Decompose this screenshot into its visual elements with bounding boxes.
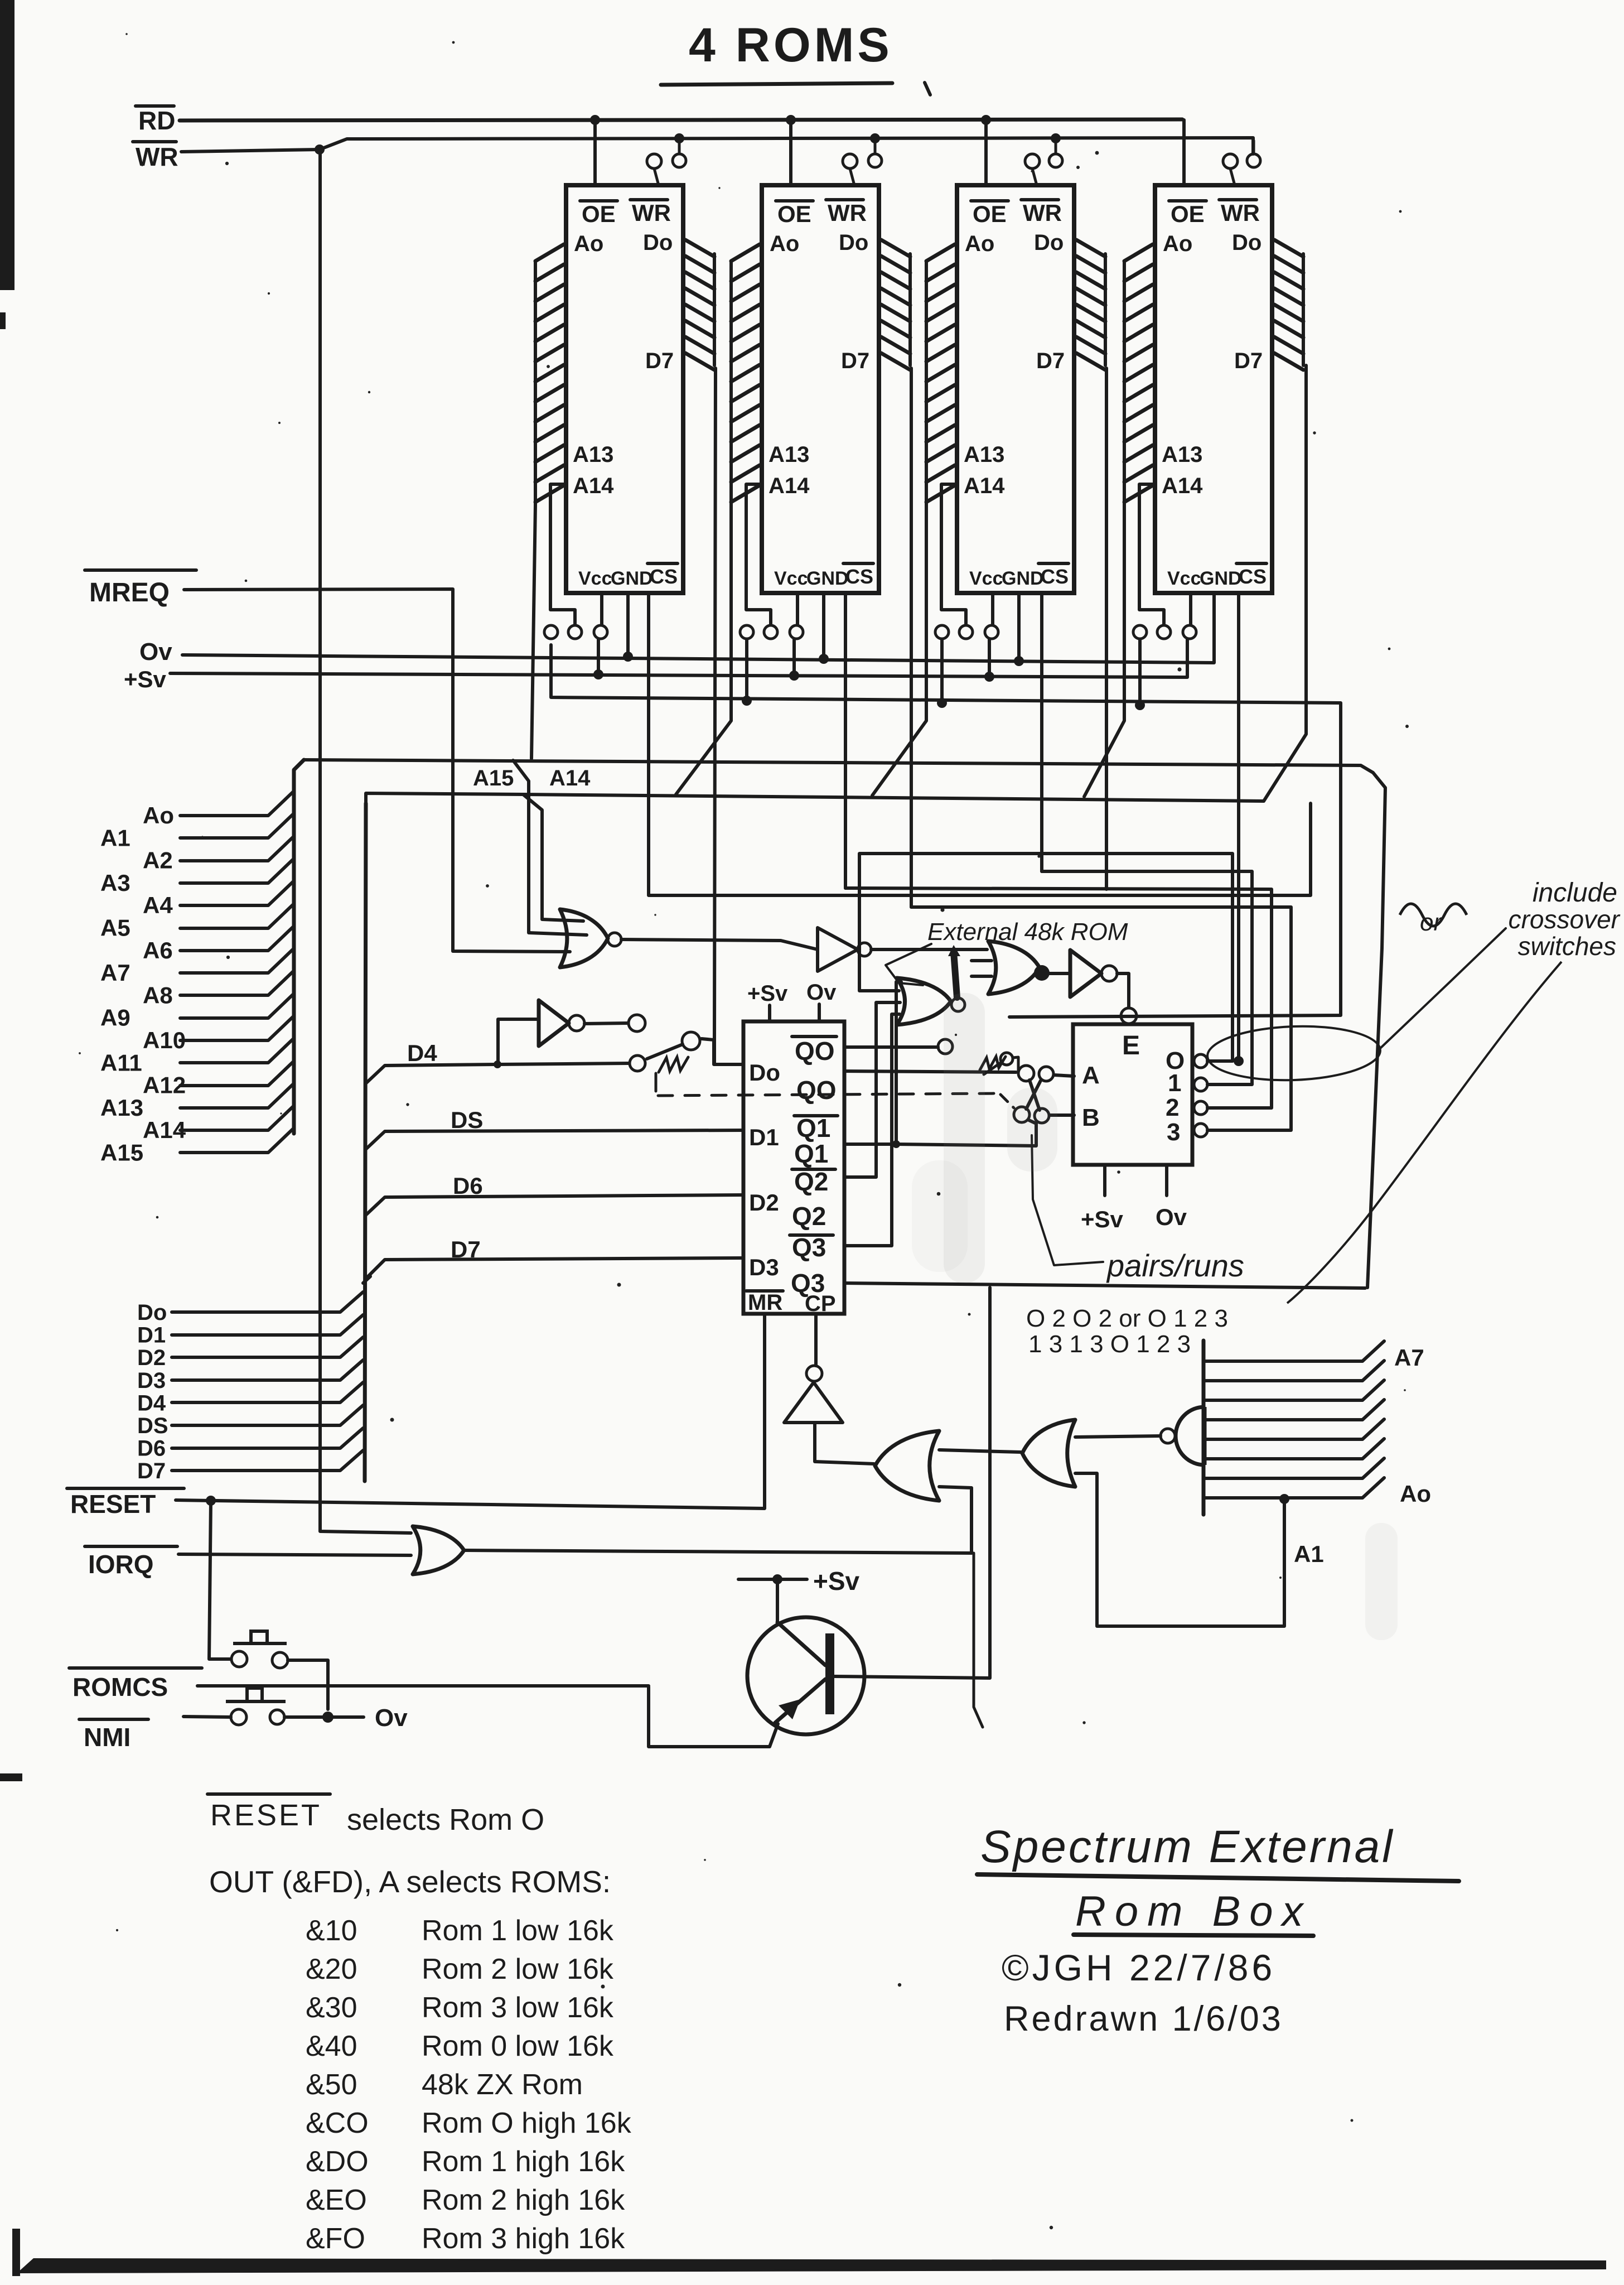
U3 WR overline xyxy=(1021,198,1058,201)
U2 WR link circle lower xyxy=(843,154,857,168)
svg-text:4 ROMS: 4 ROMS xyxy=(689,18,893,72)
U2 link circle aux xyxy=(740,625,753,639)
junction G5 output blob xyxy=(1034,965,1050,981)
wire crossover to B xyxy=(1050,1113,1074,1117)
junction RD to U1 OE xyxy=(590,115,600,125)
svg-text:crossover: crossover xyxy=(1509,905,1621,934)
svg-text:Rom 1 low 16k: Rom 1 low 16k xyxy=(422,1915,614,1947)
pencil smudge center xyxy=(944,993,985,1283)
NAND gate G11 body xyxy=(1176,1407,1205,1465)
svg-text:A6: A6 xyxy=(143,937,173,963)
wire bus drop U2 left xyxy=(676,505,731,794)
svg-text:©JGH 22/7/86: ©JGH 22/7/86 xyxy=(1002,1947,1275,1988)
overline NMI xyxy=(79,1718,148,1721)
probe link circle Q0bar xyxy=(938,1039,953,1054)
U6 output 0 bubble xyxy=(1194,1054,1207,1068)
junction U4 CS select0 xyxy=(1234,1056,1244,1066)
svg-text:Vcc: Vcc xyxy=(578,568,612,589)
svg-text:3: 3 xyxy=(1167,1119,1180,1146)
wire bus D1 xyxy=(172,1315,363,1335)
svg-text:NMI: NMI xyxy=(84,1723,130,1752)
junction U1 Vcc on +5v rail xyxy=(593,669,603,679)
svg-text:&20: &20 xyxy=(306,1953,357,1985)
wire A bus spine right xyxy=(1202,1341,1206,1515)
svg-text:D2: D2 xyxy=(749,1189,779,1216)
U3 OE overline xyxy=(971,199,1008,203)
note RESET overline xyxy=(207,1792,330,1796)
callout curve to include text xyxy=(1380,928,1506,1049)
U2 address bus hatching xyxy=(731,244,760,502)
U4 link circle A14 xyxy=(1157,625,1171,639)
overline ROMCS xyxy=(69,1666,202,1670)
svg-text:MR: MR xyxy=(748,1290,782,1315)
dashed option wire to B xyxy=(1000,1095,1014,1108)
junction switches 0v xyxy=(322,1712,333,1723)
U1 address bus envelope xyxy=(534,262,537,505)
wire bus D3 xyxy=(172,1360,363,1380)
svg-text:D7: D7 xyxy=(645,349,674,373)
latch chip U5 body xyxy=(743,1021,844,1314)
U3 CS overline xyxy=(1038,562,1069,565)
transistor Q1 emitter diagonal xyxy=(775,1679,825,1723)
svg-text:DS: DS xyxy=(451,1107,483,1133)
wire +5v stub xyxy=(738,1578,807,1581)
wire base vertical xyxy=(776,1579,779,1624)
wire A11 xyxy=(180,1038,294,1063)
U6 output 2 bubble xyxy=(1194,1101,1207,1115)
svg-text:Ao: Ao xyxy=(770,232,799,256)
svg-text:Do: Do xyxy=(137,1300,167,1325)
wire 0v rail xyxy=(182,593,1214,663)
switch S1 wiper arm xyxy=(647,1044,683,1059)
svg-text:Ao: Ao xyxy=(143,802,174,828)
svg-text:Ov: Ov xyxy=(375,1704,408,1732)
wire select1 net xyxy=(1042,871,1252,1084)
svg-text:Do: Do xyxy=(839,230,868,255)
crossover contact UL xyxy=(1018,1066,1034,1081)
svg-text:selects Rom O: selects Rom O xyxy=(347,1803,544,1836)
svg-text:E: E xyxy=(1122,1031,1140,1060)
annotation big swoop xyxy=(1287,962,1562,1303)
switch S2 contact xyxy=(1000,1053,1013,1065)
crossover contact LL xyxy=(1014,1107,1029,1122)
svg-text:&CO: &CO xyxy=(306,2107,369,2139)
wire bus drop U4 left xyxy=(1084,505,1124,797)
svg-text:GND: GND xyxy=(1200,568,1242,589)
wire U3 WR link upper stub xyxy=(1055,141,1057,154)
svg-text:&30: &30 xyxy=(306,1992,357,2024)
U4 data bus hatching xyxy=(1274,240,1303,370)
svg-text:OE: OE xyxy=(777,201,811,227)
wire A9 xyxy=(180,994,294,1018)
annotation ellipse xyxy=(1206,1024,1381,1083)
wire G3 output to probe xyxy=(584,1023,628,1024)
junction U2 Vcc on +5v rail xyxy=(789,671,799,681)
wire U1 A14 loop xyxy=(550,484,575,625)
svg-text:D7: D7 xyxy=(137,1459,166,1483)
inverter G3 external ROM probe xyxy=(539,1000,569,1046)
wire A1 xyxy=(180,813,294,838)
U5 MR overline xyxy=(746,1289,783,1293)
svg-text:D3: D3 xyxy=(749,1254,779,1280)
svg-text:D3: D3 xyxy=(137,1368,166,1393)
U1 address bus hatching xyxy=(535,244,564,502)
svg-text:Do: Do xyxy=(749,1059,780,1086)
switch S1 contact left xyxy=(630,1055,645,1071)
U5 Q0bar overline xyxy=(792,1035,837,1038)
inverter G9 body xyxy=(784,1382,843,1423)
title underline 1 xyxy=(977,1874,1459,1881)
scan artifact bottom border xyxy=(17,2258,1606,2273)
svg-text:QO: QO xyxy=(795,1037,835,1066)
SW2 contact right xyxy=(270,1710,284,1724)
wire U1 Vcc pin stub xyxy=(600,593,603,624)
junction WR xyxy=(315,144,325,155)
wire U2 aux link to select rail xyxy=(745,639,748,700)
wire U4 Vcc pin stub xyxy=(1189,593,1192,624)
inverter G9 bubble xyxy=(806,1366,822,1381)
wire U2 GND pin to 0v xyxy=(822,593,825,658)
svg-text:OUT (&FD), A selects ROMS:: OUT (&FD), A selects ROMS: xyxy=(209,1864,611,1899)
wire U2 Vcc pin stub xyxy=(796,593,799,624)
svg-text:A7: A7 xyxy=(1394,1344,1424,1371)
wire bus drop U3 right xyxy=(1105,368,1108,889)
svg-text:A9: A9 xyxy=(100,1005,130,1031)
svg-text:Ov: Ov xyxy=(806,980,837,1005)
wire A13 xyxy=(180,1083,294,1108)
svg-text:OE: OE xyxy=(582,201,616,227)
title underline 2 xyxy=(1074,1935,1313,1936)
wire U3 GND pin to 0v xyxy=(1017,593,1021,660)
transistor Q1 bar xyxy=(825,1633,834,1714)
G11 output bubble xyxy=(1161,1429,1175,1443)
svg-text:A15: A15 xyxy=(100,1140,143,1166)
wire A5 xyxy=(180,904,294,928)
junction RD to U2 OE xyxy=(786,115,796,125)
svg-text:GND: GND xyxy=(1002,568,1044,589)
wire G10 in lower to A1 net xyxy=(1075,1473,1284,1626)
svg-text:Ao: Ao xyxy=(965,232,994,256)
svg-text:A14: A14 xyxy=(1162,474,1203,498)
U2 data bus envelope xyxy=(908,254,912,365)
U1 data bus hatching xyxy=(685,240,714,370)
wire bus D6 xyxy=(172,1428,363,1448)
wire A15 branch to NOR xyxy=(513,760,587,935)
SW2 contact left xyxy=(231,1709,246,1725)
wire U4 A14 loop xyxy=(1139,484,1164,625)
svg-text:Q1: Q1 xyxy=(794,1139,828,1168)
junction A0 tap xyxy=(1279,1494,1289,1504)
transistor Q1 body circle xyxy=(747,1617,864,1734)
junction U4 aux on select rail xyxy=(1135,700,1145,710)
wire G11 output xyxy=(1075,1436,1161,1437)
svg-text:Spectrum External: Spectrum External xyxy=(980,1821,1395,1872)
wire A6 xyxy=(180,926,294,951)
svg-text:D7: D7 xyxy=(1036,349,1065,373)
svg-text:A13: A13 xyxy=(1162,442,1202,467)
svg-text:Rom 2 low 16k: Rom 2 low 16k xyxy=(422,1953,614,1985)
dashed option wire xyxy=(655,1073,658,1091)
junction D4 inverter branch xyxy=(494,1060,501,1068)
svg-text:RD: RD xyxy=(138,106,175,135)
wire U1 Vcc link to +5v xyxy=(597,639,600,673)
wire D6 xyxy=(366,1195,742,1215)
wire D7 xyxy=(366,1258,742,1279)
wire select0 net xyxy=(859,854,1232,1061)
svg-text:A7: A7 xyxy=(100,960,130,986)
switch S2 wiper squiggle xyxy=(980,1057,1006,1070)
U1 WR link circle upper xyxy=(673,154,686,167)
wire G6 output to E xyxy=(1117,973,1129,1007)
wire G7 output xyxy=(464,1550,971,1553)
wire latch 0v pin xyxy=(818,1004,821,1021)
wire right bus A4 xyxy=(1203,1400,1384,1420)
wire U2 WR link upper stub xyxy=(874,141,877,154)
ROM chip U3 body xyxy=(957,185,1074,593)
U3 data bus hatching xyxy=(1076,240,1105,370)
svg-text:D6: D6 xyxy=(137,1436,166,1461)
svg-text:Vcc: Vcc xyxy=(1167,568,1201,589)
wire crossover to A xyxy=(1054,1075,1074,1076)
svg-text:&EO: &EO xyxy=(306,2184,367,2216)
svg-text:A14: A14 xyxy=(549,766,591,790)
svg-text:D1: D1 xyxy=(137,1323,166,1348)
overline RD xyxy=(136,104,174,108)
U4 WR link circle upper xyxy=(1247,154,1260,167)
svg-text:Do: Do xyxy=(1034,230,1064,255)
wire G5 input stubs xyxy=(971,959,992,962)
junction RD to U3 OE xyxy=(981,115,991,125)
wire RESET to switch xyxy=(209,1501,231,1659)
wire +5v rail xyxy=(170,639,1187,677)
wire G8 in upper xyxy=(939,1450,1021,1452)
svg-text:Rom 3 high 16k: Rom 3 high 16k xyxy=(422,2223,625,2255)
U4 address bus envelope xyxy=(1123,262,1126,505)
wire SW1 right to 0v xyxy=(288,1660,328,1709)
SW1 contact left xyxy=(231,1651,247,1667)
NOR gate G1 xyxy=(560,909,608,967)
U2 data bus hatching xyxy=(881,240,910,370)
U2 WR link circle upper xyxy=(868,154,882,167)
wire A4 xyxy=(180,881,294,905)
wire bus D4 xyxy=(172,1382,363,1402)
svg-text:1 3 1 3 O 1 2 3: 1 3 1 3 O 1 2 3 xyxy=(1028,1330,1191,1358)
annotation squiggle or xyxy=(1400,904,1467,926)
svg-text:Rom 1 high 16k: Rom 1 high 16k xyxy=(422,2146,625,2178)
paper speckle noise xyxy=(547,365,550,368)
svg-text:D4: D4 xyxy=(407,1040,437,1066)
svg-text:Ov: Ov xyxy=(1156,1204,1187,1230)
wire right bus A3 xyxy=(1203,1419,1384,1439)
U5 Q1bar overline xyxy=(794,1114,838,1117)
svg-text:CS: CS xyxy=(845,565,873,588)
wire Q3 out xyxy=(844,1283,1365,1288)
decoder chip U6 body xyxy=(1073,1024,1192,1165)
svg-text:OE: OE xyxy=(1171,201,1205,227)
wire Q1 feedback xyxy=(844,982,901,1144)
svg-text:+Sv: +Sv xyxy=(747,981,788,1006)
U1 CS overline xyxy=(647,562,678,565)
wire D4 branch to probe inverter xyxy=(498,1019,539,1064)
U3 data bus envelope xyxy=(1104,254,1107,365)
U3 WR link circle lower xyxy=(1025,154,1040,168)
decoder E input bubble xyxy=(1121,1008,1137,1024)
wire data bus join cap xyxy=(363,1276,370,1283)
wire Q1 to crossover B xyxy=(896,1120,1036,1146)
svg-text:D6: D6 xyxy=(453,1173,483,1199)
svg-text:pairs/runs: pairs/runs xyxy=(1106,1248,1244,1283)
svg-text:A13: A13 xyxy=(573,442,613,467)
wire bus Do xyxy=(172,1292,363,1312)
svg-text:+Sv: +Sv xyxy=(813,1566,860,1595)
wire G7 output up to G8 xyxy=(939,1487,971,1553)
title tick mark xyxy=(925,83,930,95)
scan artifact left edge bar xyxy=(0,0,14,290)
junction WR to U1 xyxy=(674,133,684,143)
svg-text:A14: A14 xyxy=(768,474,810,498)
overline RESET xyxy=(67,1487,184,1490)
svg-text:RESET: RESET xyxy=(210,1799,322,1832)
U2 CS overline xyxy=(843,562,873,565)
wire latch +5v pin xyxy=(768,1005,771,1021)
junction U1 GND on 0v rail xyxy=(623,652,633,662)
svg-text:Ov: Ov xyxy=(139,638,172,666)
wire Q2bar feedback xyxy=(844,1002,900,1177)
wire U1 envelope drop xyxy=(531,505,535,759)
wire SW2 right xyxy=(284,1715,364,1719)
OR gate G7 xyxy=(413,1526,464,1574)
U1 data bus envelope xyxy=(713,254,716,365)
title underline xyxy=(661,83,892,85)
svg-text:48k ZX Rom: 48k ZX Rom xyxy=(422,2069,583,2101)
wire right bus A0 xyxy=(1203,1478,1384,1498)
svg-text:&DO: &DO xyxy=(306,2146,369,2178)
svg-text:Vcc: Vcc xyxy=(969,568,1003,589)
wire U4 OE pin riser xyxy=(1182,120,1186,185)
crossover X wires xyxy=(1026,1080,1041,1110)
wire A3 xyxy=(180,859,294,883)
wire U2 Vcc link to +5v xyxy=(792,639,796,674)
wire A15 xyxy=(180,1128,294,1153)
svg-text:A14: A14 xyxy=(964,474,1005,498)
wire bus DS xyxy=(172,1405,363,1425)
junction Q1 wire xyxy=(892,1140,900,1148)
svg-text:A14: A14 xyxy=(573,474,614,498)
svg-text:OE: OE xyxy=(973,201,1007,227)
U4 link circle aux xyxy=(1133,625,1147,639)
probe link circle external ROM xyxy=(629,1015,645,1031)
svg-text:WR: WR xyxy=(136,142,178,171)
wire U3 CS vertical xyxy=(1040,593,1043,871)
wire A15 net xyxy=(304,760,1385,1288)
svg-text:Q2: Q2 xyxy=(792,1202,826,1231)
svg-text:CS: CS xyxy=(1041,565,1069,588)
wire right bus A7 xyxy=(1203,1341,1384,1361)
wire WR vertical down to IORQ gate xyxy=(320,150,411,1533)
switch SW1 button xyxy=(233,1631,287,1643)
svg-text:Rom 0 low 16k: Rom 0 low 16k xyxy=(422,2030,614,2062)
svg-text:D1: D1 xyxy=(749,1124,779,1150)
wire G5 input stub 2 xyxy=(971,975,992,978)
wire U1 CS net xyxy=(649,593,1311,895)
svg-text:Q3: Q3 xyxy=(792,1233,826,1262)
U4 WR overline xyxy=(1219,198,1256,201)
callout pairs xyxy=(1032,1135,1103,1265)
switch S2 hook xyxy=(1013,1057,1018,1071)
svg-text:WR: WR xyxy=(828,200,867,226)
svg-text:Rom O high 16k: Rom O high 16k xyxy=(422,2107,632,2139)
OR gate G8 (faces left) xyxy=(875,1431,939,1501)
junction U3 Vcc on +5v rail xyxy=(984,672,994,682)
U2 OE overline xyxy=(776,199,813,203)
U2 link circle Vcc xyxy=(790,625,803,639)
inverter G6 xyxy=(1070,950,1101,997)
wire NMI to SW2 xyxy=(183,1717,231,1717)
pencil smudge below latch xyxy=(912,1160,968,1272)
svg-text:D4: D4 xyxy=(137,1391,166,1415)
wire A8 xyxy=(180,971,294,995)
svg-text:CP: CP xyxy=(805,1291,836,1316)
svg-text:GND: GND xyxy=(611,568,653,589)
wire select2 net xyxy=(845,888,1272,1108)
U1 WR overline xyxy=(630,198,668,201)
wire Q0 out to switch xyxy=(844,1071,1016,1072)
svg-text:Vcc: Vcc xyxy=(774,568,808,589)
junction U2 aux on select rail xyxy=(742,696,752,706)
svg-text:External 48k ROM: External 48k ROM xyxy=(927,918,1128,946)
transistor Q1 base diagonal xyxy=(777,1622,825,1665)
switch S1 contact upper xyxy=(682,1032,700,1050)
svg-text:Ao: Ao xyxy=(1163,232,1192,256)
OR gate G5 xyxy=(988,941,1040,994)
svg-text:switches: switches xyxy=(1518,932,1616,961)
svg-text:A13: A13 xyxy=(964,442,1004,467)
OR gate G10 (faces left) xyxy=(1022,1420,1075,1487)
svg-text:A: A xyxy=(1082,1062,1100,1089)
svg-text:GND: GND xyxy=(806,568,849,589)
crossover contact LR xyxy=(1035,1108,1049,1123)
U1 WR link circle lower xyxy=(647,154,661,168)
svg-text:&40: &40 xyxy=(306,2030,357,2062)
svg-text:DS: DS xyxy=(137,1414,168,1438)
wire latch CP pin xyxy=(814,1314,818,1366)
wire U2 CS vertical xyxy=(844,593,847,888)
svg-text:D2: D2 xyxy=(137,1346,166,1370)
wire U4 aux link to select rail xyxy=(1138,639,1142,704)
wire RESET xyxy=(176,1314,765,1508)
wire bus drop U3 left xyxy=(872,505,926,796)
U2 link circle A14 xyxy=(764,625,777,639)
wire emitter out xyxy=(649,1687,778,1747)
svg-text:Redrawn 1/6/03: Redrawn 1/6/03 xyxy=(1004,1999,1283,2038)
scan artifact bottom-left corner xyxy=(12,2229,20,2276)
transistor Q1 emitter arrow xyxy=(779,1699,800,1719)
U4 address bus hatching xyxy=(1124,244,1153,502)
wire select rail xyxy=(551,645,1341,1017)
wire G1 output xyxy=(621,939,818,949)
U4 CS overline xyxy=(1236,562,1267,565)
svg-text:&50: &50 xyxy=(306,2069,357,2101)
wire G9 input xyxy=(815,1423,874,1464)
wire S1 to latch D0 xyxy=(702,1039,742,1064)
wire bus D2 xyxy=(172,1337,363,1357)
wire Ao xyxy=(180,791,294,816)
wire data bus vertical xyxy=(365,803,366,1481)
wire right bus A2 xyxy=(1203,1439,1384,1459)
svg-text:1: 1 xyxy=(1168,1069,1181,1097)
svg-text:MREQ: MREQ xyxy=(89,578,170,608)
svg-text:Ao: Ao xyxy=(574,232,603,256)
